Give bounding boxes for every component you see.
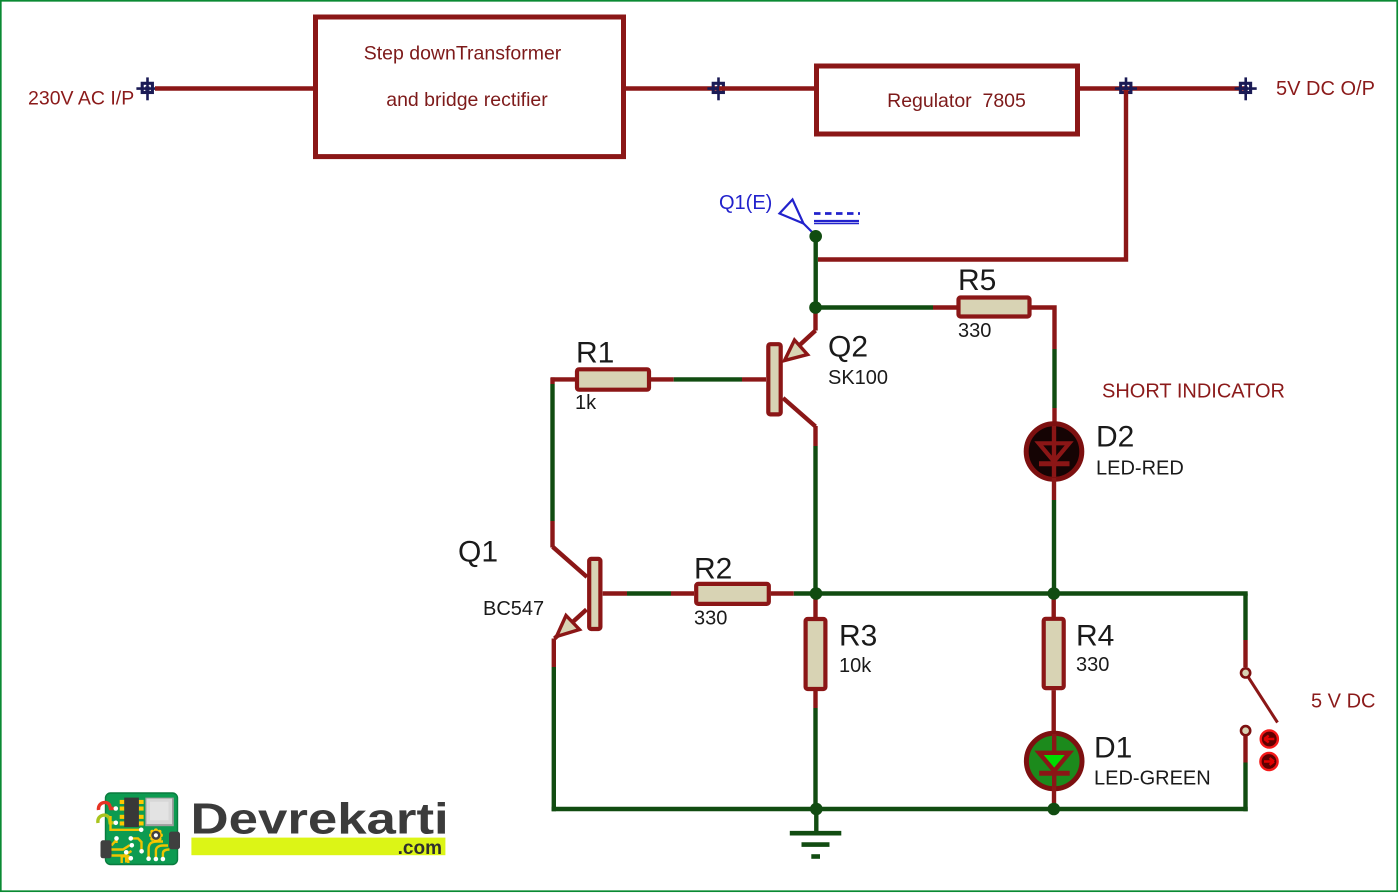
block regulator 7805	[817, 66, 1078, 134]
svg-text:SK100: SK100	[828, 367, 888, 389]
transistor Q2 SK100	[651, 308, 888, 427]
logo yellow bar	[191, 838, 445, 856]
terminal output	[1235, 77, 1257, 100]
led D2 LED-RED	[1026, 421, 1184, 480]
wire terminal to regulator	[719, 86, 816, 90]
node Q1(E) dot	[809, 230, 822, 243]
probe Q1(E)	[719, 192, 860, 234]
svg-text:230V AC I/P: 230V AC I/P	[28, 88, 134, 110]
svg-text:10k: 10k	[839, 655, 872, 677]
resistor R1	[551, 337, 649, 415]
wire Q1 base to R2	[603, 591, 694, 595]
junction bottom right	[1048, 803, 1061, 816]
wire R1 left down to Q1	[550, 377, 554, 547]
junction mid rail right	[1048, 587, 1061, 600]
svg-text:R2: R2	[694, 553, 732, 586]
wire probe node down	[814, 236, 818, 307]
wire mid rail	[816, 591, 1248, 595]
switch branch	[1241, 594, 1278, 812]
junction emitter node	[809, 301, 822, 314]
svg-text:Q2: Q2	[828, 331, 868, 364]
svg-text:5 V DC: 5 V DC	[1311, 691, 1375, 713]
svg-text:Q1: Q1	[458, 536, 498, 569]
svg-text:.com: .com	[398, 838, 442, 859]
resistor R5	[958, 264, 1030, 342]
ground	[790, 809, 842, 857]
svg-text:330: 330	[1076, 654, 1109, 676]
led D1 LED-GREEN	[1026, 732, 1210, 790]
junction mid rail left	[810, 587, 823, 600]
wire regulator to output	[1080, 86, 1246, 90]
wire input to transformer	[155, 86, 314, 90]
switch toggle up	[1261, 730, 1278, 747]
svg-text:LED-GREEN: LED-GREEN	[1094, 768, 1211, 790]
wire Q1 emitter down	[552, 639, 556, 812]
wire transformer to terminal	[626, 86, 718, 90]
svg-text:1k: 1k	[575, 392, 597, 414]
wire Q2 collector down	[813, 426, 817, 594]
svg-text:330: 330	[694, 608, 727, 630]
svg-text:Devrekarti: Devrekarti	[191, 795, 449, 844]
wire R5 to LED D2	[1032, 308, 1055, 427]
resistor R3	[806, 594, 878, 810]
junction bottom left	[810, 803, 823, 816]
svg-text:Q1(E): Q1(E)	[719, 192, 772, 214]
svg-text:Step downTransformer: Step downTransformer	[364, 43, 562, 65]
resistor R4	[1044, 594, 1115, 734]
wire 5V rail down	[818, 90, 1126, 260]
resistor R2	[694, 553, 817, 630]
wire bottom rail	[552, 807, 1248, 811]
terminal input 230V	[136, 77, 158, 100]
svg-text:R5: R5	[958, 264, 996, 297]
terminal 5V node	[1115, 77, 1137, 100]
wire D1 to bottom rail	[1052, 787, 1056, 809]
logo pcb icon	[98, 793, 180, 865]
svg-text:R3: R3	[839, 620, 877, 653]
svg-text:D1: D1	[1094, 732, 1132, 765]
svg-text:R4: R4	[1076, 620, 1114, 653]
switch toggle down	[1260, 753, 1277, 770]
wire D2 to mid rail	[1052, 478, 1056, 594]
block transformer/rectifier	[316, 17, 624, 157]
svg-text:BC547: BC547	[483, 598, 544, 620]
svg-text:and bridge rectifier: and bridge rectifier	[386, 89, 548, 111]
svg-text:R1: R1	[576, 337, 614, 370]
svg-text:Regulator 7805: Regulator 7805	[887, 90, 1026, 112]
svg-text:SHORT INDICATOR: SHORT INDICATOR	[1102, 381, 1285, 403]
wire emitter node to R5	[816, 305, 958, 309]
svg-text:LED-RED: LED-RED	[1096, 458, 1184, 480]
svg-text:330: 330	[958, 320, 991, 342]
terminal mid	[707, 77, 729, 100]
svg-text:5V DC O/P: 5V DC O/P	[1276, 78, 1375, 100]
transistor Q1 BC547	[458, 536, 600, 639]
svg-text:D2: D2	[1096, 421, 1134, 454]
